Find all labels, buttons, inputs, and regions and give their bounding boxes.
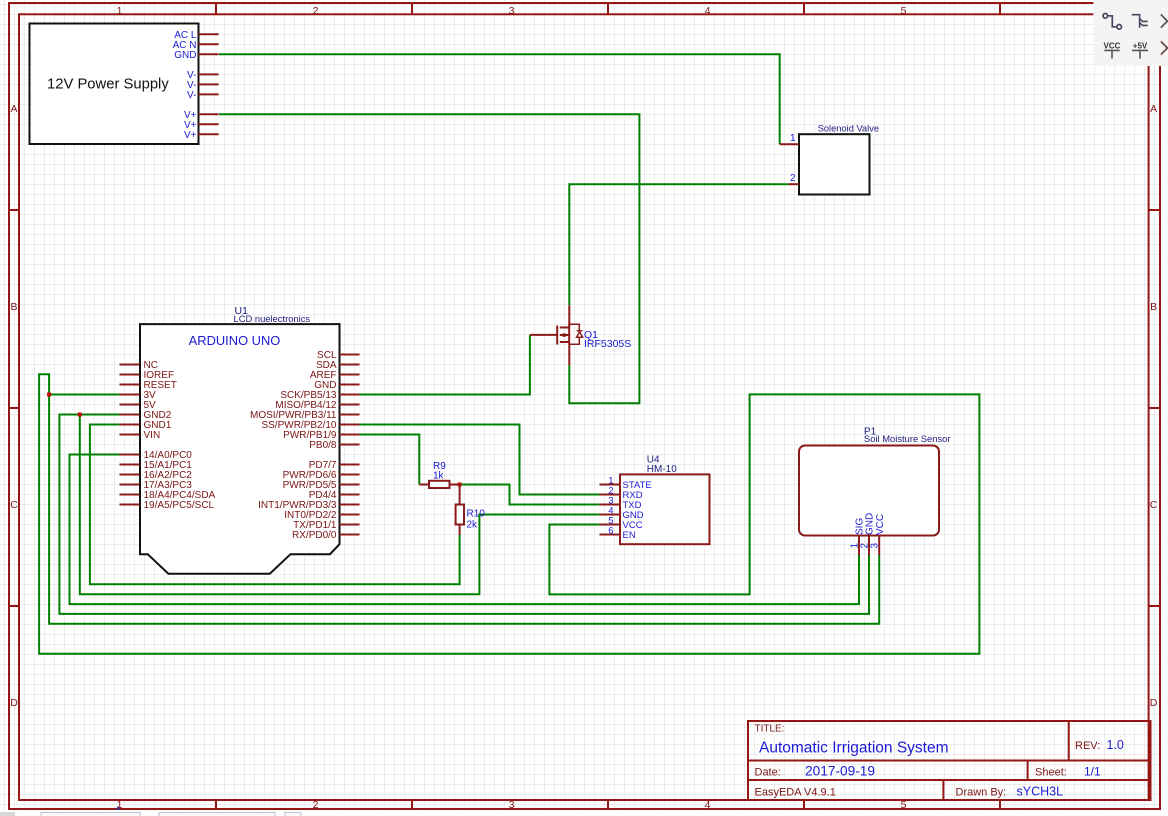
IC U1 ARDUINO UNO (LCD nuelectronics) bbox=[120, 305, 360, 574]
svg-text:VIN: VIN bbox=[144, 430, 161, 441]
wire net 3V3a: Arduino 3V to soil sensor VCC pin bbox=[49, 395, 879, 624]
wire net A0: Arduino 14/A0/PC0 to soil sensor SIG pin bbox=[70, 455, 860, 605]
svg-text:C: C bbox=[10, 499, 18, 511]
transistor Q1 IRF5305S (P-MOSFET) bbox=[530, 305, 631, 365]
svg-text:+5V: +5V bbox=[1133, 41, 1148, 50]
toolbar icon: draw bus bbox=[1132, 15, 1148, 28]
svg-text:Soil Moisture Sensor: Soil Moisture Sensor bbox=[864, 433, 951, 444]
svg-text:6: 6 bbox=[608, 526, 613, 537]
svg-text:1k: 1k bbox=[433, 471, 445, 482]
svg-text:1: 1 bbox=[117, 5, 123, 17]
svg-text:PB0/8: PB0/8 bbox=[309, 440, 337, 451]
toolbar icon: more arrow top bbox=[1161, 14, 1168, 27]
svg-text:1/1: 1/1 bbox=[1084, 765, 1101, 779]
svg-text:ARDUINO UNO: ARDUINO UNO bbox=[189, 333, 281, 348]
svg-text:1: 1 bbox=[790, 133, 796, 144]
svg-text:D: D bbox=[10, 697, 18, 709]
toolbar icon: more arrow bottom bbox=[1161, 41, 1168, 54]
svg-text:B: B bbox=[10, 301, 17, 313]
svg-text:Drawn By:: Drawn By: bbox=[956, 786, 1007, 798]
svg-text:EasyEDA V4.9.1: EasyEDA V4.9.1 bbox=[755, 786, 836, 798]
svg-text:3: 3 bbox=[870, 543, 881, 549]
wire net GND2b: GND2 junction to U4 GND bbox=[80, 415, 600, 595]
title block bbox=[748, 721, 1151, 800]
wire net GND1: Arduino GND1 to R10 bottom lead bbox=[90, 425, 460, 585]
wire net D13: Arduino SCK/PB5/13 to Q1 gate bbox=[360, 335, 530, 395]
svg-text:2: 2 bbox=[790, 173, 796, 184]
resistor R10 2k bbox=[456, 485, 486, 536]
wire net TXD: R9/R10 junction to U4 TXD bbox=[460, 485, 600, 505]
toolbar icon: VCC power flag bbox=[1104, 41, 1121, 58]
svg-text:Sheet:: Sheet: bbox=[1035, 767, 1067, 779]
svg-text:sYCH3L: sYCH3L bbox=[1017, 784, 1064, 798]
svg-text:2: 2 bbox=[313, 799, 319, 811]
svg-text:4: 4 bbox=[705, 799, 711, 811]
junction node at GND2 wire bbox=[78, 413, 82, 417]
svg-text:4: 4 bbox=[705, 5, 711, 17]
svg-text:VCC: VCC bbox=[1104, 41, 1121, 50]
svg-text:Automatic Irrigation System: Automatic Irrigation System bbox=[759, 739, 949, 756]
wire net GND2a: Arduino GND2 to soil sensor GND pin bbox=[59, 415, 869, 614]
svg-text:IRF5305S: IRF5305S bbox=[584, 338, 631, 350]
svg-text:2017-09-19: 2017-09-19 bbox=[805, 764, 875, 779]
svg-text:RX/PD0/0: RX/PD0/0 bbox=[292, 530, 337, 541]
toolbar panel overlay bbox=[1093, 0, 1168, 66]
svg-text:LCD nuelectronics: LCD nuelectronics bbox=[234, 313, 311, 324]
svg-text:19/A5/PC5/SCL: 19/A5/PC5/SCL bbox=[144, 500, 215, 511]
svg-text:R10: R10 bbox=[467, 509, 486, 520]
connector P1 Soil Moisture Sensor bbox=[799, 427, 951, 556]
junction node at 3V wire bbox=[47, 393, 51, 397]
svg-text:Solenoid Valve: Solenoid Valve bbox=[818, 123, 879, 133]
svg-text:3: 3 bbox=[509, 5, 515, 17]
svg-text:2: 2 bbox=[313, 5, 319, 17]
svg-text:EN: EN bbox=[623, 530, 636, 541]
junction node at R9/R10/TXD bbox=[458, 483, 462, 487]
bottom tab strip bbox=[0, 812, 301, 816]
svg-text:2k: 2k bbox=[467, 520, 479, 531]
resistor R9 1k bbox=[419, 461, 459, 488]
wire net SOL2: solenoid valve pin 2 to Q1 source bbox=[569, 184, 788, 305]
svg-text:C: C bbox=[1150, 499, 1158, 511]
wire net V+: power supply V+ to Q1 drain bbox=[219, 114, 639, 403]
svg-text:D: D bbox=[1150, 697, 1158, 709]
svg-text:12V Power Supply: 12V Power Supply bbox=[47, 76, 169, 92]
connector "Solenoid Valve" bbox=[780, 123, 879, 194]
IC U4 HM-10 bluetooth module bbox=[600, 455, 710, 545]
svg-text:A: A bbox=[10, 103, 17, 115]
svg-text:V+: V+ bbox=[184, 130, 197, 141]
svg-text:HM-10: HM-10 bbox=[647, 464, 677, 475]
canvas origin marker bbox=[116, 806, 121, 810]
svg-text:A: A bbox=[1150, 103, 1157, 115]
wire net GND-PS: power supply GND to solenoid valve pin 1 bbox=[219, 54, 780, 144]
svg-text:Date:: Date: bbox=[755, 767, 781, 779]
svg-text:TITLE:: TITLE: bbox=[755, 724, 785, 735]
svg-text:3: 3 bbox=[509, 799, 515, 811]
svg-text:5: 5 bbox=[901, 5, 907, 17]
svg-text:B: B bbox=[1150, 301, 1157, 313]
svg-text:V-: V- bbox=[187, 90, 196, 101]
toolbar icon: +5V power flag bbox=[1132, 41, 1148, 58]
svg-text:REV:: REV: bbox=[1075, 740, 1100, 752]
wire net D10: Arduino SS/PWR/PB2/10 to U4 RXD bbox=[360, 425, 600, 495]
toolbar icon: draw wire bbox=[1103, 14, 1121, 30]
svg-text:1.0: 1.0 bbox=[1107, 738, 1124, 752]
svg-text:GND: GND bbox=[174, 50, 196, 61]
svg-text:VCC: VCC bbox=[875, 514, 886, 535]
power supply "12V Power Supply" bbox=[30, 24, 219, 145]
wire net D9: Arduino PWR/PB1/9 to R9 left lead bbox=[360, 435, 420, 485]
wire net 3V3b: 3V junction loop to U4 VCC bbox=[39, 374, 979, 654]
